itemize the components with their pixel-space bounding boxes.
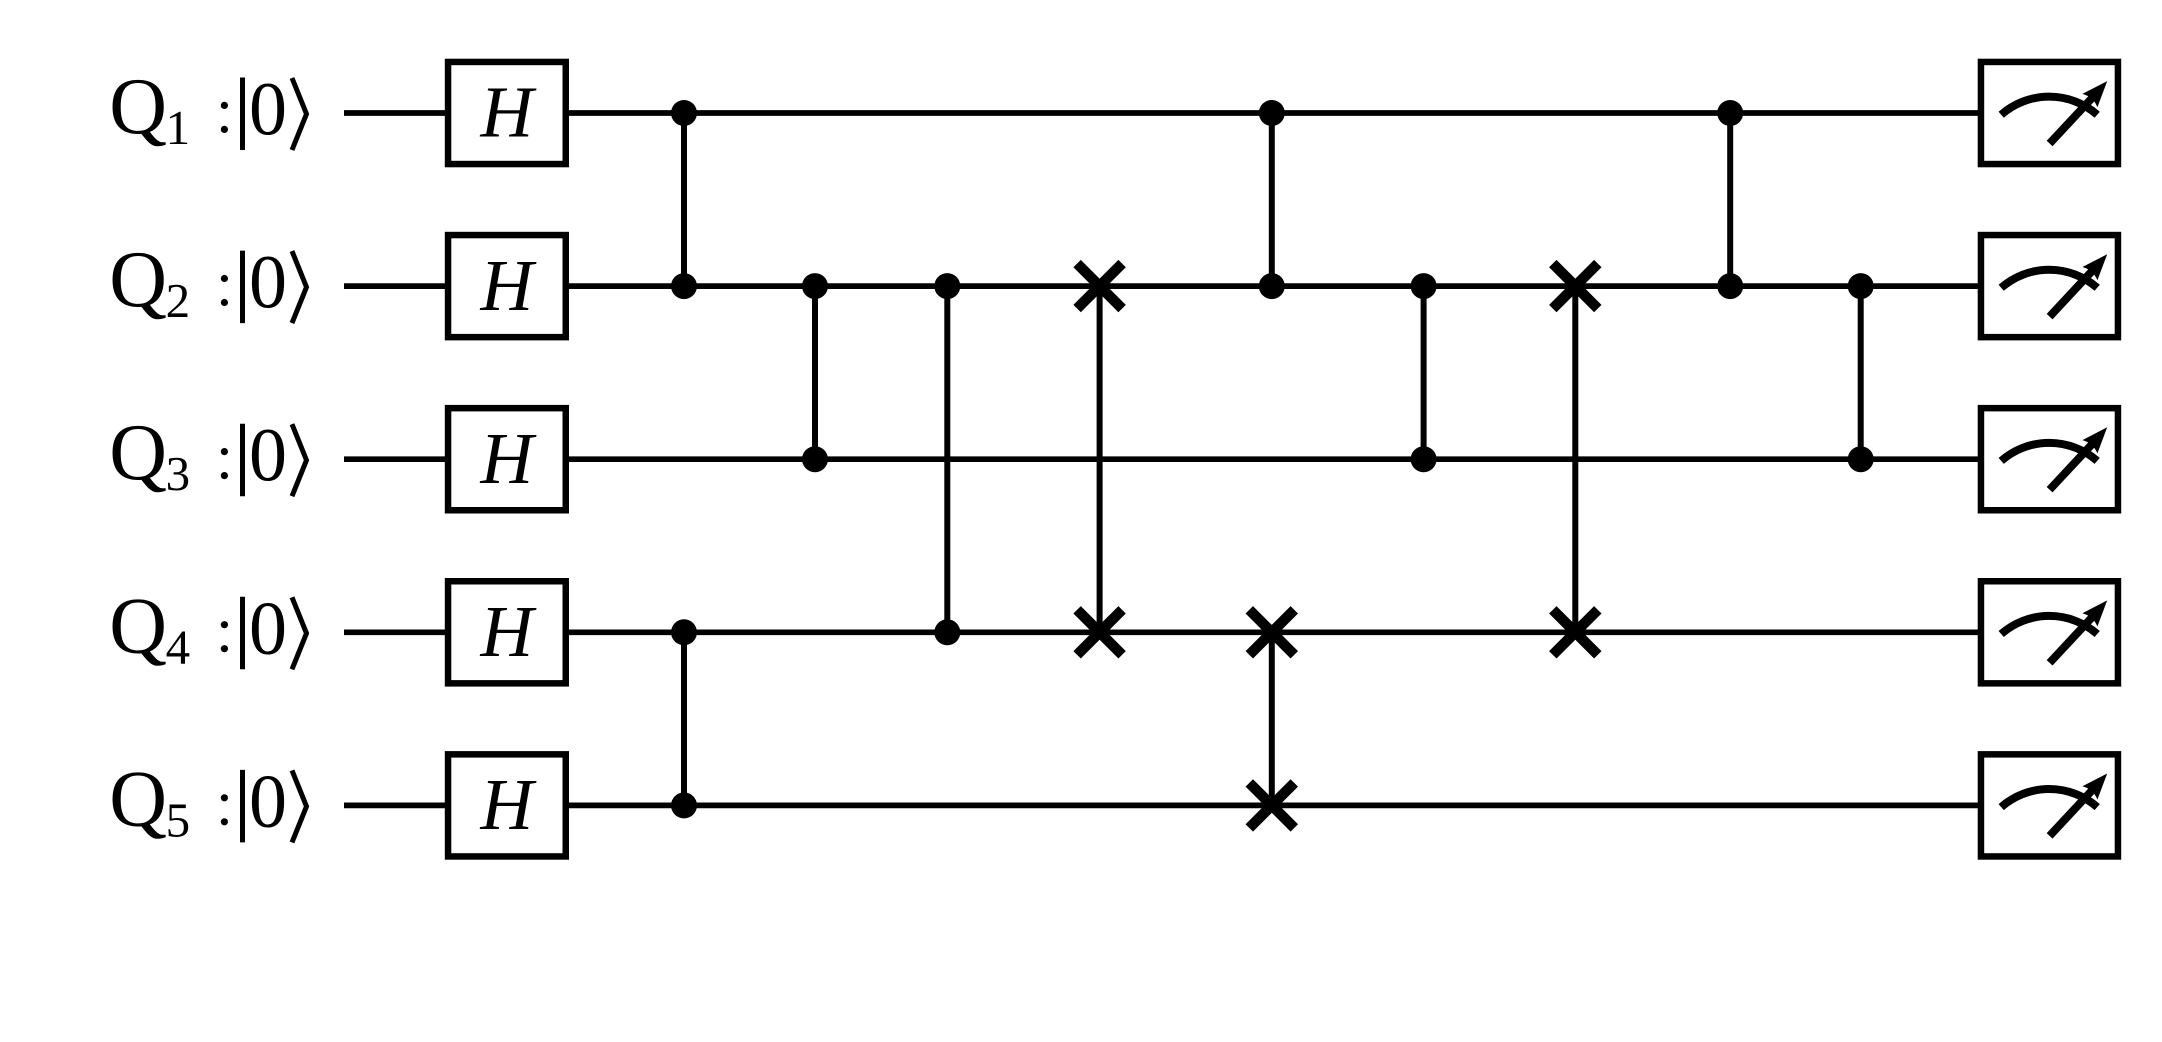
svg-text:1: 1 [166, 100, 191, 155]
control dot on Q3 [1848, 446, 1874, 472]
Hadamard gate H on Q5 [448, 754, 566, 856]
svg-text:0: 0 [249, 414, 287, 498]
svg-text:Q: Q [109, 755, 167, 843]
measurement meter on Q5 [1981, 754, 2118, 856]
Hadamard gate H on Q1 [448, 62, 566, 164]
control dot on Q1 [1259, 100, 1285, 126]
svg-text:H: H [480, 591, 537, 672]
control dot on Q4 [671, 619, 697, 645]
control dot on Q4 [934, 619, 960, 645]
SWAP gate Q2-Q4 (col 7): vertical link [1572, 286, 1578, 632]
control dot on Q1 [671, 100, 697, 126]
CZ gate Q2-Q3 (col 9): vertical link [1858, 286, 1864, 459]
control dot on Q2 [934, 273, 960, 299]
wire Q5 [344, 803, 1981, 809]
control dot on Q3 [802, 446, 828, 472]
CZ gate Q2-Q3 (col 2): vertical link [812, 286, 818, 459]
qubit label Q5 :|0> [109, 755, 306, 847]
svg-text:H: H [480, 245, 537, 326]
CZ gate Q1-Q2 (col 8): vertical link [1727, 113, 1733, 286]
wire Q3 [344, 456, 1981, 462]
CZ gate Q2-Q4 (col 3): vertical link [944, 286, 950, 632]
svg-text:5: 5 [166, 792, 191, 847]
qubit label Q4 :|0> [109, 582, 306, 674]
svg-text:H: H [480, 764, 537, 845]
Hadamard gate H on Q2 [448, 235, 566, 337]
svg-text:0: 0 [249, 760, 287, 844]
swap cross on Q2 [1077, 264, 1122, 309]
swap cross on Q5 [1249, 783, 1294, 828]
control dot on Q2 [671, 273, 697, 299]
control dot on Q3 [1411, 446, 1437, 472]
svg-text:0: 0 [249, 587, 287, 671]
svg-text:Q: Q [109, 582, 167, 670]
svg-text:0: 0 [249, 68, 287, 152]
CZ gate Q2-Q3 (col 6): vertical link [1421, 286, 1427, 459]
measurement meter on Q1 [1981, 62, 2118, 164]
control dot on Q2 [802, 273, 828, 299]
svg-text:Q: Q [109, 63, 167, 151]
qubit label Q2 :|0> [109, 236, 306, 328]
control dot on Q2 [1259, 273, 1285, 299]
svg-text:4: 4 [166, 619, 191, 674]
CZ gate Q4-Q5 (col 1): vertical link [681, 632, 687, 805]
measurement meter on Q2 [1981, 235, 2118, 337]
CZ gate Q1-Q2 (col 1): vertical link [681, 113, 687, 286]
measurement meter on Q3 [1981, 408, 2118, 510]
control dot on Q2 [1717, 273, 1743, 299]
svg-text:H: H [480, 418, 537, 499]
Hadamard gate H on Q3 [448, 408, 566, 510]
measurement meter on Q4 [1981, 581, 2118, 683]
svg-text:Q: Q [109, 236, 167, 324]
SWAP gate Q4-Q5 (col 5): vertical link [1269, 632, 1275, 805]
swap cross on Q4 [1249, 610, 1294, 655]
SWAP gate Q2-Q4 (col 4): vertical link [1097, 286, 1103, 632]
svg-text:H: H [480, 72, 537, 153]
control dot on Q2 [1411, 273, 1437, 299]
svg-text:2: 2 [166, 273, 191, 328]
wire Q1 [344, 110, 1981, 116]
CZ gate Q1-Q2 (col 5): vertical link [1269, 113, 1275, 286]
wire Q4 [344, 629, 1981, 635]
Hadamard gate H on Q4 [448, 581, 566, 683]
qubit label Q1 :|0> [109, 63, 306, 155]
control dot on Q5 [671, 792, 697, 818]
svg-text:Q: Q [109, 409, 167, 497]
swap cross on Q4 [1553, 610, 1598, 655]
wire Q2 [344, 283, 1981, 289]
control dot on Q1 [1717, 100, 1743, 126]
qubit label Q3 :|0> [109, 409, 306, 501]
svg-text:0: 0 [249, 241, 287, 325]
svg-text:3: 3 [166, 446, 191, 501]
swap cross on Q2 [1553, 264, 1598, 309]
control dot on Q2 [1848, 273, 1874, 299]
swap cross on Q4 [1077, 610, 1122, 655]
